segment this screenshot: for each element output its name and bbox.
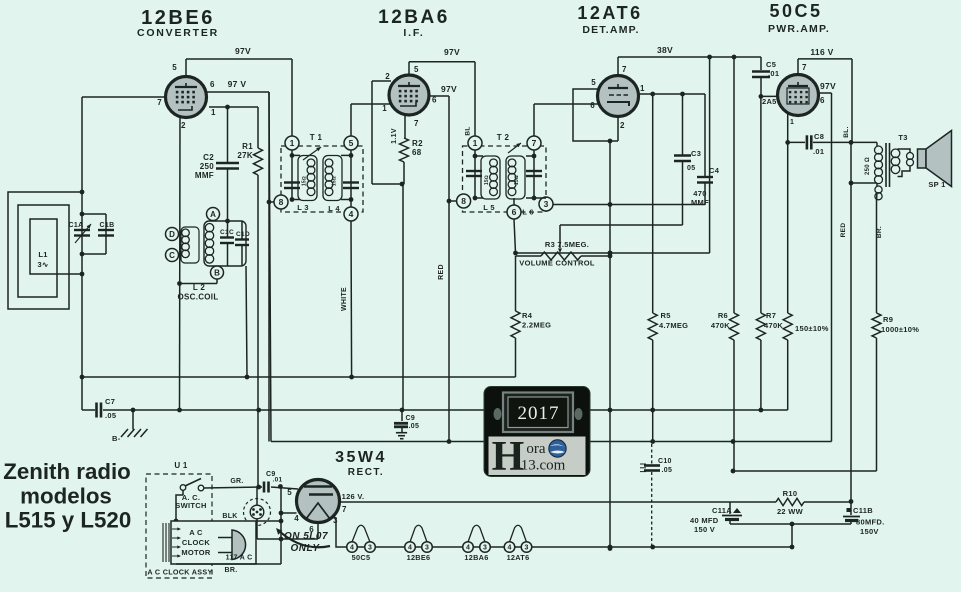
label 116V [810, 47, 833, 57]
wire C1B branch [82, 214, 106, 254]
T1 primary wiring [290, 150, 300, 202]
svg-text:A C: A C [189, 528, 203, 537]
label AC CLOCK ASSY [147, 568, 212, 577]
svg-text:5: 5 [591, 78, 596, 87]
heater 12AT6 [504, 525, 532, 562]
svg-text:6: 6 [820, 96, 825, 105]
svg-text:R4: R4 [522, 311, 533, 320]
clock motor box [171, 521, 256, 564]
T2 tuning arrow [508, 143, 521, 153]
label 97V V2 screen [441, 84, 457, 94]
wire BR down [876, 200, 878, 313]
terminal D [166, 228, 179, 241]
svg-text:470K: 470K [711, 321, 730, 330]
node bus 179 [177, 408, 182, 413]
node avc white [349, 375, 354, 380]
wire T1-4 white lead [350, 221, 353, 377]
svg-text:BLK: BLK [222, 513, 237, 520]
svg-text:126 V.: 126 V. [342, 492, 365, 501]
wire T1-5 to V2 grid [351, 104, 391, 136]
wire cathode long vertical [609, 141, 611, 549]
node GR-281 [278, 484, 283, 489]
wire switch left down [176, 490, 183, 521]
wire V1 plate to T1 pin1 [186, 59, 292, 136]
wire heater 2 [432, 546, 462, 548]
wire T2-8 to RED line [447, 199, 457, 204]
svg-text:12AT6: 12AT6 [577, 3, 642, 23]
capacitor C11B 80MFD [843, 502, 884, 536]
svg-text:C10: C10 [658, 458, 672, 465]
plug 117AC [218, 530, 252, 562]
hum bucking coil [875, 186, 882, 200]
wire B- bus [82, 377, 788, 410]
resistor R6 470K [711, 57, 739, 471]
svg-text:.05: .05 [409, 423, 420, 430]
node R3 right [608, 254, 613, 259]
node 792-524 [790, 522, 795, 527]
svg-text:3: 3 [525, 545, 529, 552]
label WHITE [341, 287, 348, 311]
terminal T1-1 [285, 136, 299, 150]
node V2 cathode junction [400, 182, 405, 187]
node R10-C11B [849, 499, 854, 504]
svg-text:C1A: C1A [69, 222, 84, 229]
capacitor C2 250MMF [195, 107, 239, 221]
svg-text:R6: R6 [718, 311, 728, 320]
speaker SP1 voice coil [898, 149, 914, 177]
svg-text:L 2: L 2 [193, 283, 206, 292]
wire heater 3 [490, 546, 504, 548]
svg-text:PWR.AMP.: PWR.AMP. [768, 23, 830, 35]
svg-text:C1B: C1B [100, 222, 115, 229]
T3 primary 250ohm [865, 142, 883, 183]
node 38V R5col [707, 55, 712, 60]
resistor R9 1000 [872, 313, 919, 471]
capacitor C4 470MMF [691, 94, 720, 207]
wire T1-8 to screen line [267, 200, 274, 205]
pin 2 label V1 [181, 121, 186, 130]
wire lamp top [256, 487, 258, 505]
pin 5 label V1 [172, 63, 177, 72]
coil L3 [297, 156, 317, 213]
node lamp-539 [279, 537, 284, 542]
svg-text:1.1V: 1.1V [391, 128, 398, 144]
svg-text:C2: C2 [203, 153, 214, 162]
node antenna top [80, 190, 85, 195]
pin 6 label V3 [590, 101, 595, 110]
svg-text:50C5: 50C5 [352, 553, 371, 562]
coil L4 [323, 156, 342, 214]
svg-text:.01: .01 [273, 477, 283, 484]
svg-text:1: 1 [640, 84, 645, 93]
svg-text:15Ω: 15Ω [302, 176, 308, 186]
capacitor T1 secondary [343, 183, 359, 189]
motor winding [163, 523, 181, 562]
T3 secondary [891, 149, 900, 174]
svg-text:2: 2 [620, 121, 625, 130]
wire V5 pin3 heater [333, 514, 347, 547]
pilot lamp dashed circle [244, 499, 271, 526]
node heater-610 [608, 545, 613, 550]
svg-text:6: 6 [512, 207, 517, 217]
svg-text:4: 4 [508, 545, 512, 552]
resistor R2 68 [400, 115, 424, 410]
svg-text:3: 3 [425, 545, 429, 552]
node R7 B-bus [759, 408, 764, 413]
svg-text:97V: 97V [444, 47, 460, 57]
wire terminal B to grid line [180, 279, 218, 284]
svg-text:L 3: L 3 [297, 203, 309, 212]
svg-text:GR.: GR. [230, 478, 243, 485]
label GR [230, 478, 243, 485]
pin 4 label V5 [294, 514, 299, 523]
node C5-R7 [759, 94, 764, 99]
node gnd junction [131, 408, 136, 413]
svg-text:116 V: 116 V [810, 47, 833, 57]
svg-text:R2: R2 [412, 139, 423, 148]
svg-text:2A5: 2A5 [762, 97, 777, 106]
wire heater return y539 [257, 538, 318, 540]
pin 5 label V3 [591, 78, 596, 87]
svg-text:C1D: C1D [236, 231, 250, 238]
wire V3 pin5 loop [573, 89, 610, 141]
svg-text:C8: C8 [814, 132, 824, 141]
R3 wiper [558, 225, 683, 253]
svg-text:1: 1 [790, 119, 794, 126]
watermark Hora13.com 2017 [484, 387, 590, 481]
wire C5 node to V4 pin2 [761, 95, 778, 97]
node cath-B-bus [608, 408, 613, 413]
label BL T2 [465, 126, 472, 135]
svg-text:MMF: MMF [195, 171, 214, 180]
svg-text:A C CLOCK ASSY: A C CLOCK ASSY [147, 568, 212, 577]
svg-text:R3 7.5MEG.: R3 7.5MEG. [545, 240, 589, 249]
capacitor C8 .01 [788, 132, 877, 156]
node R6 B+line [731, 439, 736, 444]
svg-text:3: 3 [368, 545, 372, 552]
heater 12BE6 [405, 525, 433, 562]
node C1A bottom [80, 252, 85, 257]
label 97V screen V1 [228, 79, 247, 89]
node cath-diode line [608, 202, 613, 207]
node GR-258 [256, 485, 261, 490]
node 281-521 [279, 519, 284, 524]
wire 792 down [791, 524, 793, 547]
svg-text:T 1: T 1 [310, 133, 323, 142]
tube V5 internals [304, 487, 333, 520]
svg-text:4: 4 [408, 545, 412, 552]
tube V3 12AT6 envelope [598, 76, 639, 117]
node C1A top [80, 212, 85, 217]
node RED-T3 [849, 181, 854, 186]
T2 secondary wiring [514, 150, 546, 205]
switch U1 box [146, 461, 212, 578]
label BR right [876, 226, 883, 238]
wire x281 vertical [280, 487, 282, 565]
terminal T2-6 [507, 205, 521, 219]
pilot lamp [250, 505, 264, 519]
pin 7 label V3 [622, 65, 627, 74]
node 281-513 [279, 511, 284, 516]
pin 6 label V5 [309, 525, 314, 534]
svg-text:68: 68 [412, 148, 422, 157]
wire V2 plate to T2-1 [409, 62, 475, 136]
label 126V [342, 492, 365, 501]
label L2 OSC.COIL [177, 283, 218, 302]
wire V3 plate 38V rail [618, 57, 761, 76]
svg-text:6: 6 [432, 96, 437, 105]
resistor R10 22WW [776, 489, 851, 516]
arrow on5l07 [276, 528, 330, 547]
wire V3 pin1 diode [639, 93, 706, 95]
wire V2 pin2 [372, 81, 402, 184]
label 97V V4 [820, 81, 836, 91]
svg-text:L515 y L520: L515 y L520 [5, 508, 131, 533]
svg-text:5: 5 [349, 138, 354, 148]
node R3 left [513, 251, 518, 256]
pin 7 label V1 [157, 98, 162, 107]
svg-text:5: 5 [172, 63, 177, 72]
svg-text:.05: .05 [105, 411, 116, 420]
svg-text:7: 7 [622, 65, 627, 74]
wire V5 pin6 [317, 523, 319, 540]
pin 6 label V1 [210, 80, 215, 89]
pin 7 label V5 [342, 505, 347, 514]
node avc left [80, 375, 85, 380]
terminal A [207, 208, 220, 221]
svg-text:C9: C9 [406, 415, 416, 422]
capacitor T2 primary [466, 171, 482, 176]
tube V4 title 50C5 [768, 1, 830, 35]
svg-text:12BA6: 12BA6 [378, 7, 450, 28]
wire 116V down RED [850, 142, 852, 501]
wire switch to GR line [204, 487, 298, 489]
T2 primary wiring [473, 150, 483, 200]
svg-text:BL: BL [465, 126, 472, 135]
node cath-avc [608, 251, 613, 256]
tube V2 12BA6 envelope [389, 75, 429, 115]
svg-text:27K: 27K [237, 151, 253, 160]
svg-text:MMF: MMF [691, 198, 709, 207]
wire T2-3 to diode line [553, 204, 705, 206]
svg-text:4: 4 [466, 545, 470, 552]
svg-text:C7: C7 [105, 397, 115, 406]
svg-text:I.F.: I.F. [403, 27, 424, 39]
svg-text:C1C: C1C [220, 229, 234, 236]
svg-text:5: 5 [287, 488, 292, 497]
svg-text:C4: C4 [709, 166, 720, 175]
pin 2 label V2 [385, 72, 390, 81]
svg-text:250: 250 [200, 162, 214, 171]
resistor R7 470K [756, 96, 783, 410]
svg-text:DET.AMP.: DET.AMP. [582, 24, 639, 36]
label RED [438, 264, 445, 280]
label 1.1V [391, 128, 398, 144]
capacitor T1 primary [284, 183, 300, 189]
tube V2 internal electrodes [398, 82, 420, 106]
capacitor C9b .05 bus bypass [394, 410, 419, 439]
wire grid V1 pin7 to antenna [82, 97, 166, 192]
capacitor C11A 40MFD [690, 502, 742, 534]
capacitor C1A (trimmer) [69, 222, 91, 243]
wire V1 grid pin2 [179, 116, 182, 410]
pin 6 label V4 [820, 96, 825, 105]
svg-text:7: 7 [414, 119, 419, 128]
wire V4 pin7 116V rail [798, 59, 852, 142]
label 97V plate rail V1 [235, 46, 251, 56]
svg-text:D: D [169, 230, 175, 239]
svg-text:150 V: 150 V [694, 525, 715, 534]
wire antenna vertical [81, 192, 83, 377]
capacitor C1C [220, 221, 234, 266]
svg-text:R1: R1 [242, 142, 253, 151]
pin 5 label V5 [287, 488, 292, 497]
terminal T2-1 [468, 136, 482, 150]
transformer T3 core [886, 133, 908, 187]
tube V3 title 12AT6 [577, 3, 642, 36]
wire heater 1 [375, 546, 404, 548]
svg-text:WHITE: WHITE [341, 287, 348, 311]
svg-text:1: 1 [382, 104, 387, 113]
node R5 B+line [650, 439, 655, 444]
svg-text:3∿: 3∿ [37, 260, 48, 269]
svg-text:7: 7 [802, 63, 807, 72]
node C2 osc-coil junction [225, 219, 230, 224]
svg-text:SWITCH: SWITCH [175, 501, 206, 510]
terminal T1-4 [344, 207, 358, 221]
terminal C [166, 249, 179, 262]
wire heater bus [532, 546, 792, 548]
ground B- [112, 410, 148, 443]
svg-text:2.2MEG: 2.2MEG [522, 321, 551, 330]
heater 50C5 [347, 525, 376, 562]
svg-text:40 MFD: 40 MFD [690, 516, 719, 525]
svg-text:470: 470 [693, 189, 706, 198]
wire AVC bus [82, 376, 516, 378]
pin 3 label V5 [333, 516, 338, 525]
node R5 top [650, 92, 655, 97]
tube V1 12BE6 envelope [166, 77, 207, 118]
pin 2 label V3 [620, 121, 625, 130]
capacitor T2 secondary [526, 171, 542, 176]
capacitor C10 .05 dashed [640, 444, 672, 547]
label ON 5L07 ONLY [284, 531, 328, 554]
pin 5 label V2 [414, 65, 419, 74]
tube V3 internal electrodes [607, 84, 629, 106]
coil L5 [481, 156, 500, 212]
svg-text:4: 4 [294, 514, 299, 523]
wire T2-6 down to volume [514, 219, 516, 253]
svg-text:4: 4 [350, 545, 354, 552]
node R5 B-bus [650, 408, 655, 413]
text Zenith radio modelos [3, 459, 131, 533]
svg-text:8: 8 [461, 196, 466, 206]
svg-text:C11B: C11B [853, 506, 873, 515]
node RED to B+ line [447, 439, 452, 444]
svg-text:7: 7 [157, 98, 162, 107]
svg-text:R10: R10 [783, 489, 798, 498]
svg-text:B-: B- [112, 434, 121, 443]
svg-text:7: 7 [342, 505, 347, 514]
node R2 at B- bus [400, 408, 405, 413]
svg-text:MOTOR: MOTOR [181, 548, 211, 557]
wire B+ line y441 [269, 92, 832, 442]
svg-text:RECT.: RECT. [348, 467, 384, 478]
wire V5 pin4 [281, 512, 297, 514]
wire motor bottom BR [176, 563, 281, 565]
capacitor C3 [674, 94, 701, 225]
tube V5 35W4 envelope [297, 480, 340, 523]
node cath-heater bus [608, 546, 613, 551]
wire lamp bottom [256, 519, 258, 539]
node 38V R6col [732, 55, 737, 60]
svg-text:T 2: T 2 [497, 133, 510, 142]
pin 1 label V1 [211, 108, 216, 117]
svg-text:97V: 97V [441, 84, 457, 94]
svg-text:U 1: U 1 [174, 461, 188, 470]
svg-text:Zenith radio: Zenith radio [3, 459, 131, 484]
svg-text:8: 8 [279, 197, 284, 207]
svg-text:SP 1: SP 1 [928, 180, 945, 189]
svg-text:C3: C3 [691, 149, 701, 158]
svg-text:T3: T3 [898, 133, 907, 142]
T1 secondary wiring [341, 150, 353, 207]
tube V4 internal electrodes [787, 82, 809, 104]
svg-text:13.com: 13.com [521, 458, 566, 474]
svg-text:250 Ω: 250 Ω [865, 157, 871, 175]
svg-text:6: 6 [590, 101, 595, 110]
wire motor top to BLK [256, 520, 281, 522]
svg-text:R5: R5 [661, 311, 671, 320]
node heater-652 [650, 545, 655, 550]
wire V4 plate [819, 93, 832, 442]
tube V1 internal electrodes [175, 83, 197, 110]
pin 6 label V2 [432, 96, 437, 105]
svg-text:RED: RED [438, 264, 445, 280]
svg-text:RED: RED [840, 223, 847, 238]
node avc osc [245, 375, 250, 380]
label 38V [657, 45, 673, 55]
tube V2 title 12BA6 [378, 7, 450, 39]
oscillator coil L2 box [204, 221, 246, 266]
svg-text:L1: L1 [38, 250, 47, 259]
pin 1 label V4 [790, 119, 794, 126]
wire V2 screen RED [429, 96, 450, 442]
label 35W4 RECT [335, 449, 387, 478]
svg-text:12AT6: 12AT6 [507, 553, 530, 562]
svg-text:3: 3 [483, 545, 487, 552]
svg-text:C11A: C11A [712, 506, 732, 515]
resistor R5 4.7MEG [648, 94, 688, 442]
tube V1 title 12BE6 [137, 7, 219, 39]
svg-text:50C5: 50C5 [769, 1, 822, 21]
wire V3 pin2 cathode [610, 117, 618, 141]
label RED right [840, 223, 847, 238]
svg-text:VOLUME CONTROL: VOLUME CONTROL [519, 259, 595, 268]
wire 126V line [340, 501, 777, 503]
svg-text:15Ω: 15Ω [484, 175, 490, 185]
transformer T1 box [281, 133, 363, 212]
terminal T1-5 [344, 136, 358, 150]
svg-text:OSC.COIL: OSC.COIL [177, 293, 218, 302]
svg-text:H: H [492, 434, 525, 480]
svg-text:150±10%: 150±10% [795, 324, 829, 333]
capacitor C1D [235, 221, 250, 266]
svg-text:7: 7 [532, 138, 537, 148]
svg-text:1: 1 [290, 138, 295, 148]
svg-text:C: C [169, 251, 175, 260]
T1 tuning arrow [303, 147, 321, 160]
